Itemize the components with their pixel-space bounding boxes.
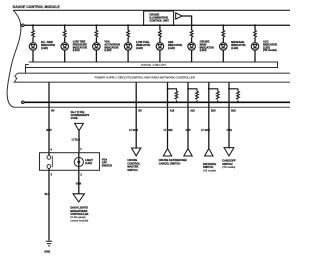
node: rail junction for MESSAGE LED	[222, 24, 224, 26]
node: resistor branch junction	[167, 88, 169, 90]
module top boundary line	[13, 9, 290, 11]
svg-text:GRN: GRN	[76, 183, 82, 186]
svg-text:BLU: BLU	[45, 193, 50, 196]
resistor (pull-up) branch	[168, 89, 177, 103]
svg-text:B22: B22	[231, 110, 236, 113]
wire LED column LOW TIRE	[64, 25, 66, 62]
resistor above LOW TIRE LED	[63, 30, 66, 37]
drive circuit box	[26, 62, 278, 73]
wire VSA switch to ground	[48, 170, 50, 240]
cruise set/resume/cancel switch triangle 1	[163, 149, 171, 157]
cruise set/resume/cancel switch triangle 2	[184, 149, 192, 157]
node: rail junction for ABS LED	[159, 24, 161, 26]
svg-text:LT GRN: LT GRN	[129, 129, 138, 132]
svg-text:DASH LIGHTSBRIGHTNESSCONTROLLE: DASH LIGHTSBRIGHTNESSCONTROLLER(in the g…	[70, 206, 88, 223]
wire LED column CRUISE	[191, 25, 193, 62]
node: resistor branch junction	[187, 88, 189, 90]
resistor (pull-up) branch	[209, 89, 218, 103]
wire LED column ABS	[159, 25, 161, 62]
node: resistor to bus junction	[237, 101, 239, 103]
wire VSA off switch signal column	[48, 82, 50, 153]
svg-text:POWER SUPPLY CIRCUIT/CONTROL U: POWER SUPPLY CIRCUIT/CONTROL UNIT/AREA N…	[95, 75, 195, 79]
buffer amplifier triangle of cruise illumination control unit	[176, 13, 182, 19]
module left boundary curve	[7, 10, 21, 107]
wire from power supply box down through boundary at x=188.0	[187, 82, 189, 148]
resistor above VSA LED	[95, 30, 98, 37]
resistor (pull-up) branch	[188, 89, 197, 103]
svg-text:GAUGE CONTROL MODULE: GAUGE CONTROL MODULE	[13, 5, 61, 9]
LED LOW TIRE	[61, 43, 69, 51]
LED ABS	[156, 43, 164, 51]
wire fuse to VSA switch pin 1	[78, 131, 80, 153]
wire LED column SH - AWD	[32, 25, 34, 62]
svg-text:GRY: GRY	[186, 129, 191, 132]
wire LED column MESSAGE	[222, 25, 224, 62]
wire LED column VSA	[95, 25, 97, 62]
wire LED column LOW FUEL	[127, 25, 129, 62]
distance switch triangle	[205, 149, 213, 157]
resistor above CRUISE LED	[190, 30, 193, 37]
module bottom boundary line	[15, 106, 290, 108]
node: rail junction for CRUISE LED	[191, 24, 193, 26]
svg-text:B10: B10	[211, 110, 216, 113]
wire from power supply box down through boundary at x=208.8	[208, 82, 210, 148]
node: resistor branch junction	[208, 88, 210, 90]
node: rail junction for LOW TIRE LED	[64, 24, 66, 26]
wire cruise control master switch column	[135, 82, 137, 148]
node: rail junction for VSA LED	[96, 24, 98, 26]
switch blade	[51, 156, 53, 168]
lower common bus wire	[24, 101, 290, 103]
wire VSA switch light to dash brightness controller	[78, 170, 80, 194]
switch contacts inside VSA box	[48, 153, 50, 171]
LED SH - AWD	[29, 43, 37, 51]
node: rail junction for SH - AWD LED	[32, 24, 34, 26]
terminal on LED supply rail	[22, 24, 25, 27]
svg-text:LT BLU: LT BLU	[72, 139, 81, 142]
svg-text:LT GRN: LT GRN	[201, 129, 210, 132]
wire from buffer output down to rail	[182, 16, 192, 25]
node: bus junction at x=49	[48, 101, 50, 103]
power supply box	[14, 73, 290, 82]
wire from power supply box down through boundary at x=167.5	[167, 82, 169, 148]
svg-text:A16: A16	[170, 110, 175, 113]
svg-text:PUR: PUR	[227, 129, 232, 132]
resistor above SH - AWD LED	[32, 30, 35, 37]
LED CRUISE	[188, 43, 196, 51]
cruise control master switch triangle	[132, 148, 141, 156]
terminal on lower common bus	[22, 101, 25, 104]
fuse feed triangle (power source)	[75, 123, 84, 130]
wire LED column ACC	[254, 25, 256, 62]
resistor (pull-up) branch	[229, 89, 238, 103]
node: resistor to bus junction	[217, 101, 219, 103]
ground symbol G501	[46, 241, 52, 246]
node: resistor to bus junction	[196, 101, 198, 103]
cruise illumination control unit box U1	[144, 11, 174, 25]
node: rail junction for ACC LED	[254, 24, 256, 26]
svg-text:CONTROL UNIT: CONTROL UNIT	[149, 18, 169, 22]
resistor above LOW FUEL LED	[127, 30, 130, 37]
LED ACC	[251, 43, 259, 51]
LED LOW FUEL	[124, 43, 132, 51]
node: rail junction for LOW FUEL LED	[127, 24, 129, 26]
svg-text:WHT: WHT	[46, 129, 52, 132]
dash lights brightness controller triangle	[73, 194, 84, 202]
VSA off switch box	[40, 153, 100, 171]
svg-text:A15: A15	[190, 110, 195, 113]
svg-text:DRIVE CIRCUIT: DRIVE CIRCUIT	[141, 63, 166, 67]
resistor above ACC LED	[254, 30, 257, 37]
resistor above MESSAGE LED	[222, 30, 225, 37]
LED VSA	[93, 43, 101, 51]
light LED bulb inside VSA box	[78, 153, 80, 171]
canc/off switch triangle	[224, 148, 234, 156]
node: resistor branch junction	[228, 88, 230, 90]
wire from power supply box down through boundary at x=229.0	[228, 82, 230, 148]
LED MESSAGE	[220, 43, 228, 51]
resistor above ABS LED	[159, 30, 162, 37]
LED supply rail wire	[24, 24, 290, 26]
svg-text:LT GRN: LT GRN	[164, 129, 173, 132]
svg-text:G501: G501	[44, 251, 51, 254]
node: resistor to bus junction	[176, 101, 178, 103]
